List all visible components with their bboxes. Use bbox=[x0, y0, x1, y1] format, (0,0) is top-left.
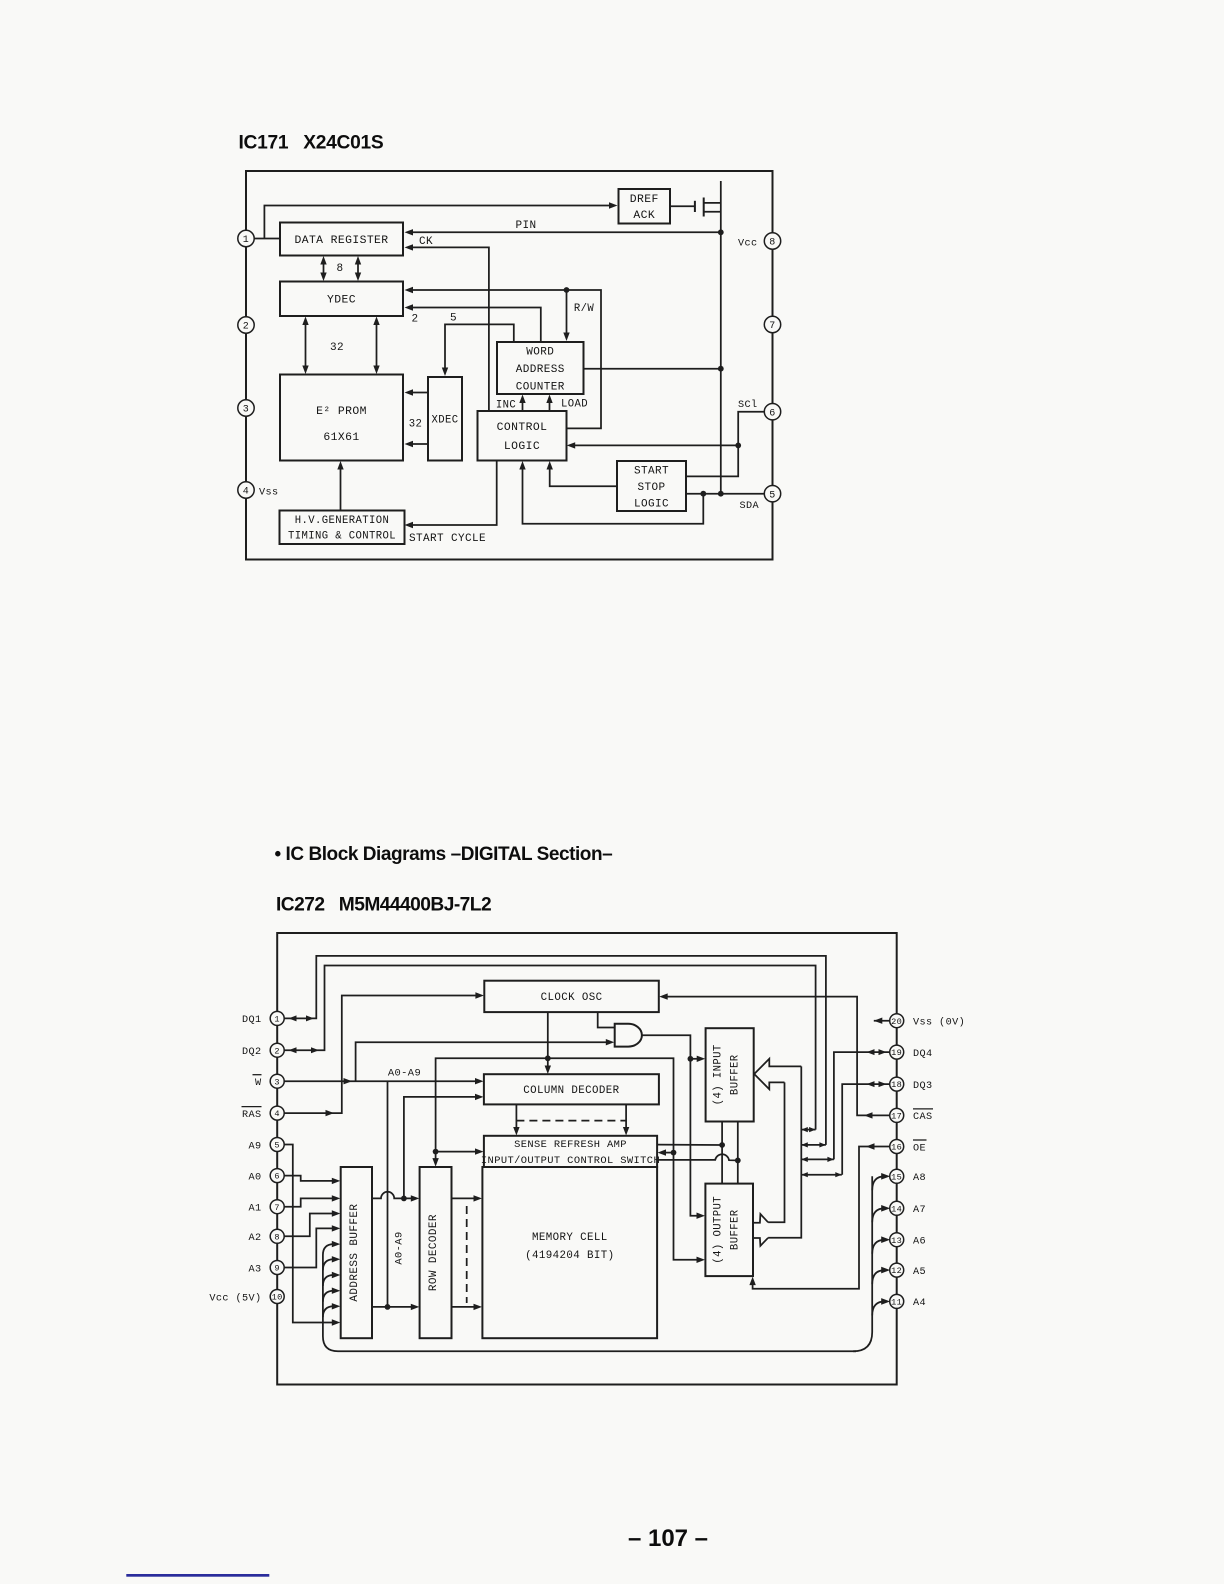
svg-text:18: 18 bbox=[891, 1080, 902, 1090]
dashed bus between ROW DECODER and MEMORY CELL bbox=[466, 1206, 468, 1303]
svg-text:4: 4 bbox=[274, 1109, 280, 1119]
svg-text:4: 4 bbox=[243, 487, 249, 498]
wire 5 counter to XDEC bbox=[442, 313, 514, 377]
wire OE to OUTPUT BUFFER bbox=[749, 1143, 890, 1289]
AND gate U1 bbox=[615, 1024, 642, 1047]
svg-text:A0-A9: A0-A9 bbox=[394, 1231, 406, 1264]
block DREF ACK bbox=[619, 189, 671, 224]
pin 9 A3 bbox=[248, 1261, 284, 1276]
svg-text:YDEC: YDEC bbox=[327, 295, 356, 307]
wire Vcc rail bbox=[720, 181, 722, 494]
svg-text:5: 5 bbox=[450, 313, 457, 325]
svg-text:A5: A5 bbox=[913, 1267, 926, 1278]
pin 6 A0 bbox=[248, 1169, 284, 1184]
pin 1 bbox=[238, 230, 254, 246]
wire R/W into counter bbox=[563, 290, 594, 341]
svg-text:LOAD: LOAD bbox=[561, 399, 588, 411]
pin 20 Vss (0V) bbox=[890, 1014, 965, 1029]
wire SDA line bbox=[686, 493, 764, 495]
pin 11 A4 bbox=[890, 1294, 926, 1309]
junction control to sense row bbox=[433, 1149, 439, 1155]
wire SENSE to io right bbox=[657, 1154, 738, 1160]
svg-text:COLUMN DECODER: COLUMN DECODER bbox=[523, 1085, 619, 1097]
svg-text:(4194204 BIT): (4194204 BIT) bbox=[525, 1250, 614, 1262]
pin 1 DQ1 bbox=[242, 1011, 284, 1026]
svg-text:A6: A6 bbox=[913, 1237, 926, 1248]
svg-text:8: 8 bbox=[274, 1232, 280, 1242]
svg-text:14: 14 bbox=[891, 1204, 902, 1214]
block 4 OUTPUT BUFFER bbox=[705, 1184, 753, 1277]
pin 2 DQ2 bbox=[242, 1043, 284, 1058]
svg-text:A9: A9 bbox=[248, 1141, 261, 1152]
pin 8 Vcc bbox=[738, 233, 781, 250]
svg-text:15: 15 bbox=[891, 1172, 902, 1182]
svg-text:E² PROM: E² PROM bbox=[316, 406, 367, 418]
svg-text:7: 7 bbox=[274, 1203, 280, 1213]
svg-text:H.V.GENERATION: H.V.GENERATION bbox=[295, 515, 390, 527]
bus tail OUTPUT BUFFER lower bbox=[753, 1238, 768, 1246]
junction control to sense right bbox=[671, 1150, 677, 1156]
wire CAS to CLOCK OSC bbox=[659, 993, 890, 1118]
svg-text:A8: A8 bbox=[913, 1173, 926, 1184]
wire A2 input bbox=[284, 1210, 341, 1236]
bus A0-A9 vertical bbox=[385, 1068, 421, 1310]
svg-text:IC171 X24C01S: IC171 X24C01S bbox=[239, 133, 384, 154]
block CONTROL LOGIC bbox=[478, 411, 567, 461]
connector DQ1 row bbox=[801, 1142, 826, 1147]
svg-text:A0-A9: A0-A9 bbox=[388, 1068, 421, 1080]
svg-text:2: 2 bbox=[274, 1046, 280, 1056]
bus A8-A4 pick-off bbox=[853, 1173, 890, 1351]
transistor Q1 drain stub bbox=[704, 202, 721, 204]
svg-text:SENSE REFRESH AMP: SENSE REFRESH AMP bbox=[514, 1139, 627, 1151]
pin 14 A7 bbox=[890, 1201, 926, 1216]
transistor Q1 source stub bbox=[704, 211, 721, 213]
block WORD ADDRESS COUNTER bbox=[497, 342, 584, 394]
bus to COLUMN DECODER second input bbox=[404, 1094, 484, 1199]
svg-text:DQ2: DQ2 bbox=[242, 1047, 262, 1058]
bus COLUMN DECODER to SENSE left bbox=[513, 1104, 519, 1135]
svg-text:Vss (0V): Vss (0V) bbox=[913, 1017, 965, 1029]
svg-text:6: 6 bbox=[769, 408, 775, 419]
svg-text:2: 2 bbox=[411, 314, 418, 326]
junction sense io right bbox=[735, 1158, 741, 1164]
wire control into SENSE right bbox=[658, 1149, 674, 1155]
svg-text:A1: A1 bbox=[248, 1204, 261, 1215]
svg-text:A4: A4 bbox=[913, 1298, 926, 1309]
svg-text:DATA REGISTER: DATA REGISTER bbox=[294, 235, 388, 247]
connector DQ3 row bbox=[801, 1172, 842, 1177]
svg-text:(4) INPUT: (4) INPUT bbox=[713, 1044, 725, 1105]
wire START CYCLE bbox=[405, 461, 497, 546]
wire LOAD bbox=[546, 395, 588, 412]
pin 2 bbox=[238, 317, 254, 333]
wire PIN line bbox=[405, 220, 721, 236]
junction SDA branch bbox=[700, 491, 706, 497]
wire pin1 branch to DREF ACK bbox=[264, 202, 617, 238]
svg-text:PIN: PIN bbox=[515, 220, 536, 232]
section heading IC Block Diagrams bbox=[275, 844, 613, 865]
svg-text:STOP: STOP bbox=[637, 482, 665, 494]
pin 7 A1 bbox=[248, 1200, 284, 1215]
wire pin1 to DATA REGISTER bbox=[254, 238, 280, 240]
pin 8 A2 bbox=[248, 1229, 284, 1244]
block DATA REGISTER bbox=[280, 223, 403, 256]
footer rule bbox=[126, 1574, 269, 1577]
page title IC272 M5M44400BJ-7L2 bbox=[276, 895, 491, 916]
junction upper bus bbox=[401, 1196, 407, 1202]
svg-text:A3: A3 bbox=[248, 1264, 261, 1275]
wire RAS to CLOCK OSC bbox=[284, 992, 484, 1116]
svg-text:6: 6 bbox=[274, 1172, 280, 1182]
pin 3 W bbox=[253, 1074, 285, 1089]
block COLUMN DECODER bbox=[484, 1074, 659, 1104]
wire CLOCK OSC to COLUMN DECODER bbox=[545, 1012, 551, 1074]
bus vertical outer bbox=[768, 1066, 801, 1237]
junction SCl branch bbox=[735, 443, 741, 449]
wire W branch to AND gate bbox=[356, 1039, 615, 1081]
pin 6 SCl bbox=[738, 399, 781, 420]
svg-text:BUFFER: BUFFER bbox=[730, 1054, 742, 1095]
block START STOP LOGIC bbox=[617, 461, 686, 511]
pin 3 bbox=[238, 400, 254, 416]
svg-text:• IC Block Diagrams –DIGITAL S: • IC Block Diagrams –DIGITAL Section– bbox=[275, 844, 613, 865]
pin 12 A5 bbox=[890, 1263, 926, 1278]
pin 15 A8 bbox=[890, 1169, 926, 1184]
pin 13 A6 bbox=[890, 1233, 926, 1248]
connector DQ2 row bbox=[801, 1127, 815, 1132]
junction on SDA line bbox=[718, 491, 724, 497]
wire control into ROW DECODER top bbox=[432, 1152, 438, 1167]
svg-text:Vss: Vss bbox=[259, 488, 279, 499]
svg-text:CAS: CAS bbox=[913, 1112, 933, 1123]
svg-text:ADDRESS BUFFER: ADDRESS BUFFER bbox=[349, 1204, 361, 1302]
svg-text:IC272 M5M44400BJ-7L2: IC272 M5M44400BJ-7L2 bbox=[276, 895, 491, 916]
pin 7 bbox=[764, 316, 780, 332]
wire DQ1 loop bbox=[284, 956, 826, 1145]
svg-text:START CYCLE: START CYCLE bbox=[409, 533, 486, 545]
bus 32 XDEC to E2PROM lower bbox=[405, 419, 429, 448]
svg-text:10: 10 bbox=[272, 1293, 283, 1303]
wire Vss stub bbox=[874, 1018, 890, 1024]
wire R/W to YDEC bbox=[405, 287, 602, 429]
wire DQ3 bbox=[842, 1081, 890, 1175]
bus ROW DECODER to MEMORY CELL lower bbox=[452, 1304, 483, 1310]
svg-text:TIMING & CONTROL: TIMING & CONTROL bbox=[288, 531, 396, 543]
wire HV generation to E2PROM bbox=[337, 461, 343, 511]
wire counter output to Vcc rail bbox=[584, 368, 721, 370]
svg-text:ROW DECODER: ROW DECODER bbox=[428, 1214, 440, 1291]
wire clock control line bbox=[436, 1058, 705, 1263]
wire SDA to CONTROL LOGIC bbox=[519, 461, 703, 524]
svg-text:XDEC: XDEC bbox=[431, 415, 458, 427]
svg-text:BUFFER: BUFFER bbox=[729, 1209, 741, 1250]
wire INPUT BUFFER to OUTPUT BUFFER left bbox=[721, 1122, 723, 1184]
wire CLOCK OSC to AND gate bbox=[598, 1012, 615, 1027]
footer page number bbox=[628, 1525, 708, 1552]
junction on counter output bbox=[718, 366, 724, 372]
svg-text:8: 8 bbox=[336, 263, 343, 275]
connector DQ4 row bbox=[801, 1157, 834, 1162]
wire START STOP to CONTROL LOGIC bbox=[547, 461, 618, 486]
wire A3 input bbox=[284, 1225, 341, 1267]
bus vertical inner bbox=[768, 1082, 784, 1222]
wire DQ4 bbox=[834, 1049, 890, 1159]
page title IC171 X24C01S bbox=[239, 133, 384, 154]
svg-text:DQ3: DQ3 bbox=[913, 1081, 933, 1092]
pin 18 DQ3 bbox=[890, 1077, 933, 1092]
wire A0 input bbox=[284, 1176, 341, 1185]
block ROW DECODER bbox=[420, 1167, 452, 1338]
bus arrow into INPUT BUFFER bbox=[754, 1059, 801, 1090]
bus 32 XDEC to E2PROM upper bbox=[405, 389, 429, 395]
transistor Q1 gate wire bbox=[670, 205, 695, 207]
svg-text:32: 32 bbox=[330, 342, 344, 354]
svg-text:OE: OE bbox=[913, 1143, 926, 1154]
wire control into SENSE left bbox=[436, 1148, 484, 1154]
block XDEC bbox=[428, 377, 462, 461]
svg-text:A0: A0 bbox=[248, 1172, 261, 1183]
block H.V.GENERATION TIMING &amp; CONTROL bbox=[280, 511, 405, 545]
bus A4-A8 feedback into ADDRESS BUFFER bbox=[323, 1241, 856, 1351]
wire A1 input bbox=[284, 1195, 341, 1207]
svg-text:LOGIC: LOGIC bbox=[634, 498, 669, 510]
svg-text:16: 16 bbox=[891, 1143, 902, 1153]
svg-text:R/W: R/W bbox=[574, 303, 595, 315]
svg-text:DREF: DREF bbox=[630, 194, 659, 206]
svg-text:13: 13 bbox=[891, 1236, 902, 1246]
svg-text:CONTROL: CONTROL bbox=[497, 422, 548, 434]
wire INC bbox=[496, 395, 526, 412]
svg-text:DQ1: DQ1 bbox=[242, 1015, 262, 1026]
wire CK line bbox=[405, 236, 489, 411]
svg-text:ADDRESS: ADDRESS bbox=[516, 364, 565, 376]
svg-text:32: 32 bbox=[409, 419, 423, 431]
wire AND output to INPUT BUFFER bbox=[690, 1056, 705, 1062]
svg-text:1: 1 bbox=[274, 1015, 280, 1025]
wire DQ2 loop bbox=[284, 966, 816, 1130]
svg-text:CK: CK bbox=[419, 236, 433, 248]
block YDEC bbox=[280, 282, 403, 317]
junction R/W bbox=[564, 287, 570, 293]
svg-text:MEMORY CELL: MEMORY CELL bbox=[532, 1232, 608, 1244]
svg-text:12: 12 bbox=[891, 1266, 902, 1276]
svg-text:WORD: WORD bbox=[526, 346, 554, 358]
label A0-A9 rotated bbox=[394, 1231, 406, 1264]
svg-text:7: 7 bbox=[769, 321, 775, 332]
block 4 INPUT BUFFER bbox=[706, 1028, 754, 1121]
transistor Q1 channel bar bbox=[703, 198, 705, 217]
svg-text:SCl: SCl bbox=[738, 399, 758, 411]
block CLOCK OSC bbox=[484, 981, 659, 1012]
svg-text:INC: INC bbox=[496, 400, 516, 412]
svg-text:INPUT/OUTPUT CONTROL SWITCH: INPUT/OUTPUT CONTROL SWITCH bbox=[481, 1155, 660, 1167]
pin 4 RAS bbox=[242, 1106, 285, 1121]
svg-text:19: 19 bbox=[891, 1048, 902, 1058]
svg-text:A7: A7 bbox=[913, 1205, 926, 1216]
block MEMORY CELL bbox=[482, 1167, 657, 1338]
svg-text:(4) OUTPUT: (4) OUTPUT bbox=[712, 1196, 724, 1264]
svg-text:SDA: SDA bbox=[739, 501, 759, 512]
wire AND gate output bbox=[642, 1035, 705, 1219]
wire SCl from pin 6 bbox=[686, 412, 764, 477]
junction clock line bbox=[545, 1055, 551, 1061]
svg-text:CLOCK OSC: CLOCK OSC bbox=[541, 992, 603, 1004]
pin 10 Vcc (5V) bbox=[209, 1290, 284, 1305]
junction on PIN line bbox=[718, 229, 724, 235]
svg-text:DQ4: DQ4 bbox=[913, 1049, 933, 1060]
svg-text:61X61: 61X61 bbox=[323, 432, 359, 444]
svg-text:8: 8 bbox=[769, 238, 775, 249]
bus 8 between DATA REGISTER and YDEC bbox=[320, 256, 361, 281]
svg-text:5: 5 bbox=[769, 490, 775, 501]
svg-text:LOGIC: LOGIC bbox=[504, 441, 540, 453]
wire W to COLUMN DECODER bbox=[284, 1078, 484, 1084]
svg-text:9: 9 bbox=[274, 1264, 280, 1274]
transistor Q1 gate bar bbox=[694, 201, 696, 212]
IC171 outer boundary box bbox=[246, 171, 773, 560]
svg-text:Vcc (5V): Vcc (5V) bbox=[209, 1292, 261, 1304]
wire A9 to ADDRESS BUFFER bbox=[284, 1145, 341, 1326]
wire INPUT BUFFER to OUTPUT BUFFER right bbox=[737, 1122, 739, 1184]
wire 2 counter to YDEC bbox=[405, 304, 541, 342]
pin 5 A9 bbox=[248, 1138, 284, 1153]
pin 4 Vss bbox=[238, 482, 279, 499]
svg-text:3: 3 bbox=[243, 405, 249, 416]
svg-text:5: 5 bbox=[274, 1141, 280, 1151]
svg-text:ACK: ACK bbox=[633, 210, 655, 222]
svg-text:3: 3 bbox=[274, 1077, 280, 1087]
block SENSE REFRESH AMP bbox=[481, 1136, 660, 1167]
bus ADDRESS BUFFER to ROW DECODER lower bbox=[372, 1304, 419, 1310]
IC272 outer boundary box bbox=[277, 933, 897, 1385]
block E2 PROM 61X61 bbox=[280, 375, 403, 461]
bus ROW DECODER to MEMORY CELL upper bbox=[452, 1195, 483, 1201]
svg-text:1: 1 bbox=[243, 235, 249, 246]
svg-text:11: 11 bbox=[891, 1298, 902, 1308]
block ADDRESS BUFFER bbox=[341, 1167, 372, 1338]
junction AND output bbox=[688, 1056, 694, 1062]
bus ADDRESS BUFFER to ROW DECODER upper bbox=[372, 1192, 419, 1202]
pin 19 DQ4 bbox=[890, 1045, 933, 1060]
pin 17 CAS bbox=[890, 1108, 933, 1123]
svg-text:– 107 –: – 107 – bbox=[628, 1525, 708, 1552]
wire SENSE to io left bbox=[657, 1144, 722, 1146]
pin 16 OE bbox=[890, 1140, 927, 1155]
wire SCl input to CONTROL LOGIC bbox=[567, 442, 739, 448]
svg-text:20: 20 bbox=[891, 1017, 902, 1027]
svg-text:A2: A2 bbox=[248, 1233, 261, 1244]
svg-text:W: W bbox=[255, 1078, 262, 1089]
svg-text:START: START bbox=[634, 465, 669, 477]
bus COLUMN DECODER to SENSE right bbox=[623, 1104, 629, 1135]
svg-text:COUNTER: COUNTER bbox=[516, 381, 565, 393]
junction sense io left bbox=[719, 1142, 725, 1148]
dashed bus COLUMN DECODER to SENSE bbox=[516, 1120, 626, 1122]
pin 5 SDA bbox=[739, 486, 780, 513]
svg-text:RAS: RAS bbox=[242, 1110, 262, 1121]
svg-text:17: 17 bbox=[891, 1112, 902, 1122]
bus 32 between YDEC and E2PROM bbox=[302, 317, 379, 375]
svg-text:2: 2 bbox=[243, 322, 249, 333]
svg-text:Vcc: Vcc bbox=[738, 238, 758, 249]
bus tail OUTPUT BUFFER upper bbox=[753, 1214, 768, 1223]
